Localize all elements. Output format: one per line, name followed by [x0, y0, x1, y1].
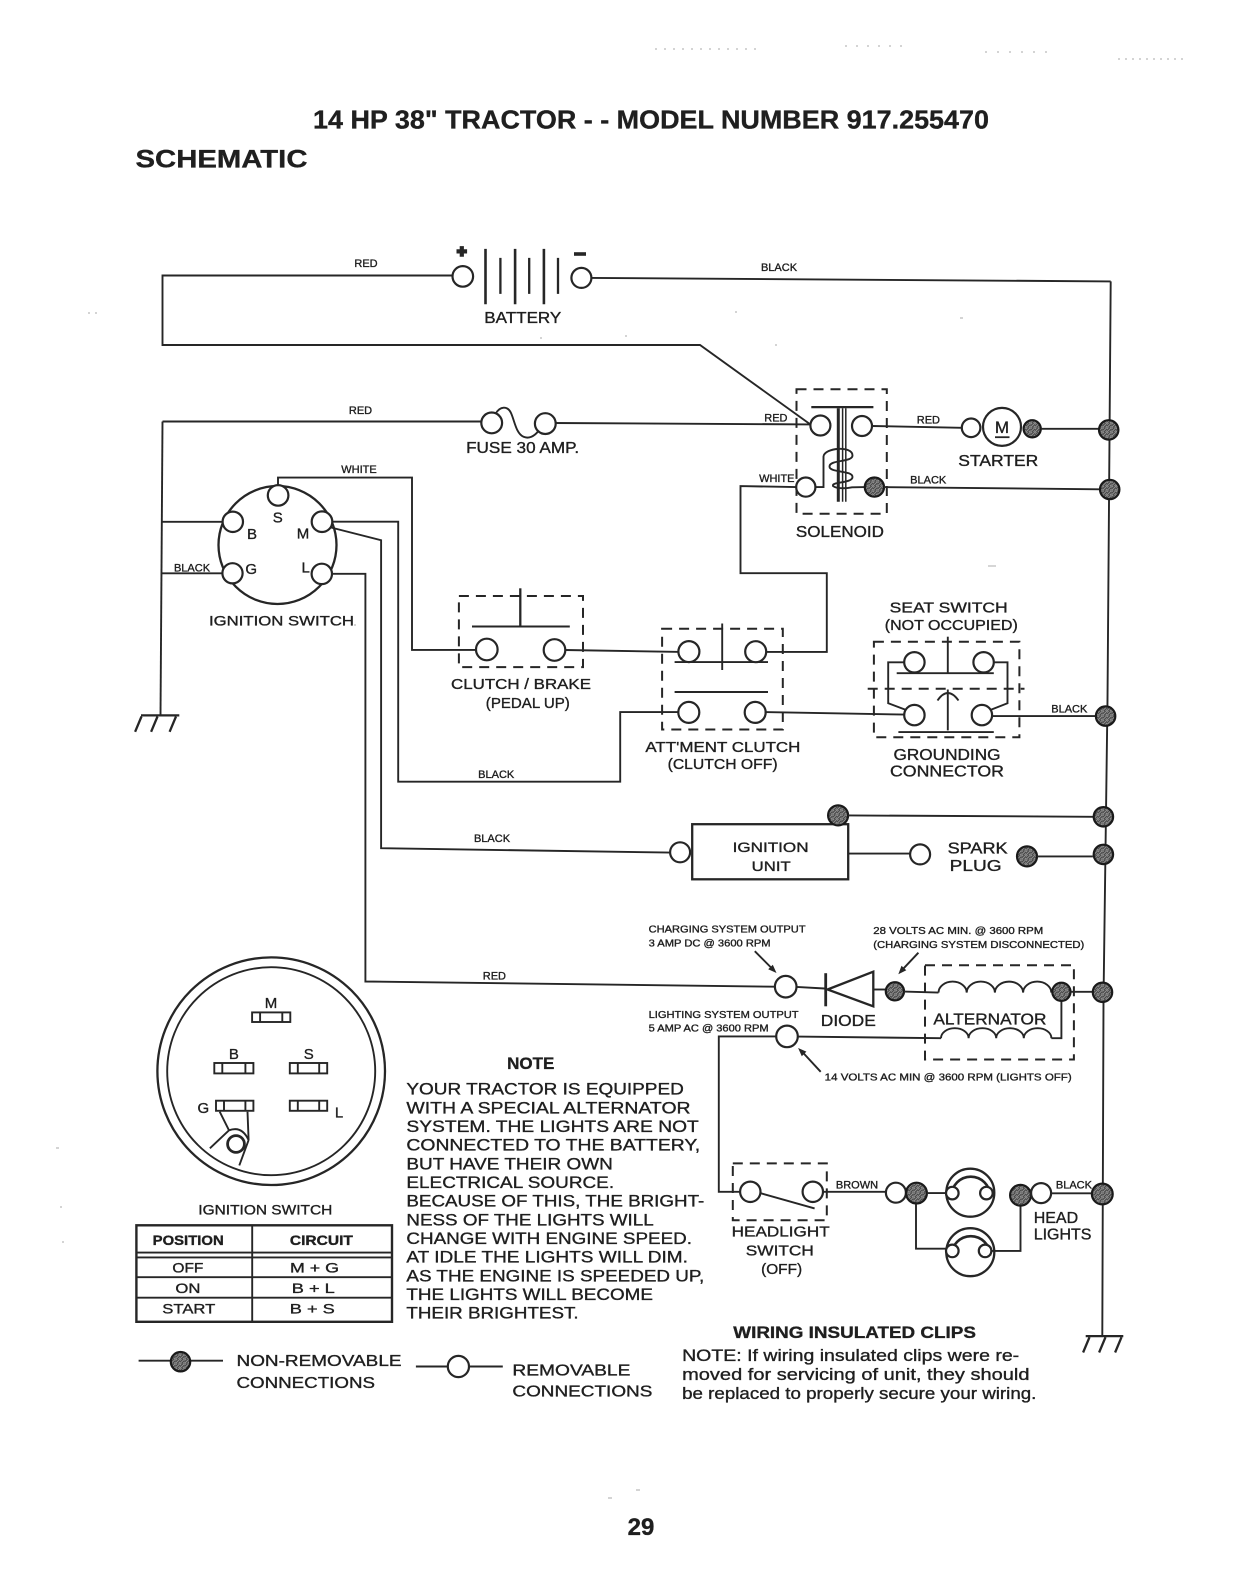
svg-text:SEAT SWITCH: SEAT SWITCH	[890, 600, 1008, 617]
solenoid pin white	[796, 478, 815, 497]
label CHARGING SYSTEM OUTPUT	[649, 924, 807, 949]
wire M pin to ignition unit black	[331, 528, 670, 853]
wire seat to bus black	[991, 715, 1096, 717]
ignition switch pin S	[268, 485, 289, 506]
table ignition switch positions	[136, 1225, 392, 1322]
svg-text:RED: RED	[354, 258, 377, 270]
svg-text:BUT HAVE THEIR OWN: BUT HAVE THEIR OWN	[406, 1154, 612, 1173]
junction dot ignition top bus	[1094, 807, 1113, 826]
attachment clutch stem	[721, 624, 723, 671]
label NON-REMOVABLE CONNECTIONS	[237, 1353, 402, 1392]
label SEAT SWITCH	[890, 600, 1008, 617]
label STARTER	[958, 453, 1038, 470]
clutch brake contact bar	[472, 626, 570, 628]
junction dot alternator bus	[1093, 983, 1112, 1002]
svg-text:CHANGE WITH ENGINE SPEED.: CHANGE WITH ENGINE SPEED.	[406, 1229, 692, 1248]
solenoid box	[797, 389, 887, 514]
terminal L detail	[290, 1101, 343, 1122]
junction dot solenoid black bus	[1100, 480, 1119, 499]
svg-text:NESS OF THE LIGHTS WILL: NESS OF THE LIGHTS WILL	[406, 1210, 653, 1229]
svg-text:CONNECTED TO THE BATTERY,: CONNECTED TO THE BATTERY,	[406, 1136, 700, 1155]
svg-text:B + L: B + L	[292, 1280, 335, 1296]
headlight junction dot left	[906, 1183, 927, 1204]
svg-text:28 VOLTS AC MIN. @ 3600 RPM: 28 VOLTS AC MIN. @ 3600 RPM	[873, 926, 1043, 937]
solenoid coil	[816, 449, 865, 488]
svg-text:G: G	[197, 1100, 209, 1117]
junction dot spark bus	[1094, 845, 1113, 864]
ignition unit box	[692, 824, 848, 879]
page number 29	[628, 1514, 655, 1541]
svg-text:L: L	[335, 1105, 343, 1122]
clutch brake box	[459, 596, 583, 667]
svg-text:14 VOLTS AC MIN @ 3600 RPM (L: 14 VOLTS AC MIN @ 3600 RPM (LIGHTS OFF)	[825, 1072, 1072, 1083]
ignition switch pin B	[223, 512, 243, 532]
label IGNITION SWITCH detail	[198, 1202, 332, 1218]
wire black to ignition G pin	[161, 572, 223, 574]
svg-text:(CLUTCH OFF): (CLUTCH OFF)	[668, 756, 778, 773]
svg-text:G: G	[245, 561, 257, 578]
battery positive terminal	[453, 246, 474, 287]
label (PEDAL UP)	[486, 695, 570, 712]
attachment clutch box	[662, 629, 783, 730]
svg-text:SCHEMATIC: SCHEMATIC	[136, 146, 308, 174]
svg-text:THEIR BRIGHTEST.: THEIR BRIGHTEST.	[406, 1304, 578, 1323]
solenoid pin red left	[810, 416, 830, 436]
label IGNITION SWITCH	[209, 613, 354, 629]
svg-text:BLACK: BLACK	[174, 562, 211, 574]
svg-text:SYSTEM. THE LIGHTS ARE NOT: SYSTEM. THE LIGHTS ARE NOT	[406, 1117, 698, 1136]
spark plug removable connection	[910, 844, 930, 864]
heading WIRING INSULATED CLIPS	[733, 1323, 976, 1342]
label ALTERNATOR	[933, 1012, 1046, 1029]
svg-text:REMOVABLE: REMOVABLE	[512, 1363, 630, 1380]
label FUSE 30 AMP.	[466, 440, 579, 457]
svg-text:14 HP 38" TRACTOR - - MODEL NU: 14 HP 38" TRACTOR - - MODEL NUMBER 917.2…	[313, 105, 989, 135]
terminal G detail	[197, 1100, 253, 1117]
headlight switch box	[733, 1163, 827, 1220]
fuse 30 amp	[481, 408, 555, 438]
svg-text:POSITION: POSITION	[153, 1233, 224, 1248]
svg-text:BLACK: BLACK	[910, 474, 947, 486]
svg-text:CONNECTIONS: CONNECTIONS	[512, 1383, 652, 1400]
label BLACK headlights	[1056, 1180, 1093, 1192]
lighting removable connection	[776, 1026, 798, 1048]
svg-text:THE LIGHTS WILL BECOME: THE LIGHTS WILL BECOME	[406, 1285, 653, 1304]
headlight switch blade	[760, 1193, 814, 1208]
svg-text:CONNECTOR: CONNECTOR	[890, 763, 1004, 780]
label WHITE ignition wire	[341, 464, 376, 476]
svg-text:IGNITION SWITCH: IGNITION SWITCH	[198, 1202, 332, 1218]
wire charging to diode	[797, 987, 825, 989]
wire lighting to headlight switch	[719, 1036, 776, 1191]
label RED solenoid left	[764, 413, 787, 425]
svg-text:(PEDAL UP): (PEDAL UP)	[486, 695, 570, 712]
svg-text:B: B	[229, 1046, 239, 1063]
junction dot lamp bus	[1092, 1184, 1113, 1205]
svg-text:M: M	[265, 995, 278, 1012]
legend non-removable dot	[171, 1352, 190, 1371]
svg-text:S: S	[273, 510, 283, 527]
svg-text:SWITCH: SWITCH	[746, 1242, 814, 1259]
alternator right link	[1051, 1001, 1061, 1038]
svg-text:SOLENOID: SOLENOID	[796, 524, 884, 541]
svg-text:BLACK: BLACK	[1056, 1180, 1093, 1192]
label CONNECTOR	[890, 763, 1004, 780]
label (CLUTCH OFF)	[668, 756, 778, 773]
svg-text:IGNITION: IGNITION	[733, 839, 809, 855]
svg-text:UNIT: UNIT	[752, 858, 792, 874]
main right bus wire	[1102, 281, 1110, 1336]
attachment pin top left	[678, 641, 699, 662]
wire lamp to bus black	[1051, 1192, 1092, 1194]
lamp removable connection right	[1031, 1183, 1051, 1203]
battery BAT plates	[486, 249, 559, 304]
clutch brake actuator stem	[519, 588, 521, 626]
label BLACK solenoid wire	[910, 474, 947, 486]
terminal S detail	[290, 1046, 327, 1073]
seat switch right bracket	[989, 662, 1008, 710]
svg-text:BLACK: BLACK	[474, 833, 511, 845]
wire diode to alternator dot	[873, 989, 886, 991]
alternator bottom coil	[941, 1028, 1051, 1038]
svg-text:IGNITION SWITCH: IGNITION SWITCH	[209, 613, 354, 629]
label ATT'MENT CLUTCH	[645, 739, 800, 756]
table header POSITION CIRCUIT	[153, 1233, 354, 1248]
wire brown headlight	[822, 1191, 886, 1193]
wire dot to top lamp	[927, 1192, 947, 1194]
starter terminal dot	[1024, 420, 1041, 437]
svg-text:(OFF): (OFF)	[761, 1261, 802, 1278]
svg-text:ALTERNATOR: ALTERNATOR	[933, 1012, 1046, 1029]
solenoid plunger core	[838, 408, 846, 502]
svg-text:HEADLIGHT: HEADLIGHT	[732, 1224, 830, 1241]
wire battery red top	[163, 276, 811, 425]
solenoid black terminal dot	[865, 478, 884, 497]
svg-text:ATT'MENT CLUTCH: ATT'MENT CLUTCH	[645, 739, 800, 756]
key position indicator	[210, 1112, 249, 1166]
svg-text:SPARK: SPARK	[948, 840, 1008, 857]
head lamp loop wires	[916, 1204, 1021, 1251]
wire L pin to charging red	[332, 574, 775, 987]
svg-text:RED: RED	[349, 405, 372, 417]
battery negative terminal	[571, 254, 591, 288]
svg-text:AS THE ENGINE IS SPEEDED UP,: AS THE ENGINE IS SPEEDED UP,	[406, 1266, 704, 1285]
wire alternator to bus	[1071, 991, 1094, 993]
attachment clutch bottom bar	[675, 691, 768, 693]
ignition switch pin M	[312, 511, 333, 532]
alternator top coil	[938, 982, 1051, 993]
svg-text:be replaced to properly secure: be replaced to properly secure your wiri…	[682, 1385, 1036, 1403]
svg-text:moved for servicing of unit: moved for servicing of unit, they should	[682, 1366, 1029, 1384]
label LIGHTING SYSTEM OUTPUT	[649, 1010, 800, 1035]
label RED fuse wire	[349, 405, 372, 417]
ignition switch pin G	[222, 563, 242, 583]
seat switch box	[874, 642, 1020, 737]
svg-text:RED: RED	[917, 415, 940, 427]
head lamp top	[946, 1169, 994, 1217]
wire to ignition B pin	[162, 521, 223, 523]
headlight junction dot right	[1010, 1185, 1031, 1206]
note paragraph	[406, 1080, 704, 1323]
svg-text:M: M	[297, 526, 310, 543]
label WHITE solenoid	[759, 473, 794, 485]
ignition switch pin L	[312, 564, 332, 584]
headlight switch pin right	[803, 1182, 823, 1202]
legend removable circle	[448, 1356, 469, 1377]
legend removable wire	[416, 1366, 503, 1368]
svg-text:B + S: B + S	[290, 1301, 335, 1317]
svg-text:RED: RED	[764, 413, 787, 425]
svg-text:START: START	[162, 1301, 216, 1317]
wire white S pin to clutch	[278, 478, 478, 650]
svg-text:GROUNDING: GROUNDING	[894, 747, 1001, 764]
alternator input dot	[886, 982, 904, 1000]
ignition unit input connection	[670, 842, 690, 862]
label RED solenoid right	[917, 415, 940, 427]
wire ignition unit to spark plug	[848, 853, 910, 855]
attachment pin top right	[745, 641, 766, 662]
seat switch top bar	[897, 672, 994, 674]
svg-text:BROWN: BROWN	[836, 1180, 878, 1192]
svg-text:STARTER: STARTER	[958, 453, 1038, 470]
wire lighting to coil	[798, 1037, 941, 1039]
label SOLENOID	[796, 524, 884, 541]
charging removable connection	[775, 976, 797, 998]
spark plug terminal dot	[1017, 846, 1037, 866]
svg-text:LIGHTS: LIGHTS	[1034, 1227, 1092, 1244]
label DIODE	[821, 1013, 876, 1030]
junction dot starter bus	[1099, 420, 1118, 439]
svg-text:M + G: M + G	[290, 1260, 339, 1276]
seat switch stem top	[947, 637, 949, 673]
clutch brake pin left	[476, 639, 498, 661]
diode D1	[826, 972, 874, 1007]
terminal M detail	[252, 995, 290, 1022]
table row START	[162, 1301, 334, 1317]
seat pin bottom right	[972, 705, 992, 725]
label GROUNDING	[894, 747, 1001, 764]
svg-text:HEAD: HEAD	[1034, 1210, 1078, 1227]
headlight switch pin left	[740, 1182, 760, 1202]
attachment pin bottom right	[745, 702, 766, 723]
svg-text:(CHARGING SYSTEM DISCONNECTED): (CHARGING SYSTEM DISCONNECTED)	[873, 940, 1084, 951]
label RED charging wire	[483, 971, 506, 983]
wire fuse red	[163, 422, 811, 425]
svg-text:CONNECTIONS: CONNECTIONS	[237, 1375, 376, 1392]
head lamp bottom	[946, 1228, 994, 1276]
wire solenoid to starter	[872, 426, 962, 428]
svg-text:CHARGING SYSTEM OUTPUT: CHARGING SYSTEM OUTPUT	[649, 924, 807, 935]
svg-text:NOTE: If wiring insulated clip: NOTE: If wiring insulated clips were re-	[682, 1347, 1019, 1365]
svg-text:5 AMP AC @ 3600 RPM: 5 AMP AC @ 3600 RPM	[649, 1024, 769, 1035]
svg-text:BECAUSE OF THIS, THE BRIGHT-: BECAUSE OF THIS, THE BRIGHT-	[406, 1192, 704, 1211]
svg-text:RED: RED	[483, 971, 506, 983]
headlight removable connection	[886, 1183, 906, 1203]
wire M pin to attachment clutch black	[332, 522, 681, 782]
label BLACK ignition unit wire	[474, 833, 511, 845]
solenoid pin red right	[852, 416, 872, 436]
svg-text:29: 29	[628, 1514, 655, 1541]
wire battery black to main bus	[591, 278, 1110, 282]
svg-text:OFF: OFF	[172, 1260, 203, 1276]
label (NOT OCCUPIED)	[885, 617, 1018, 634]
left vertical wire fuse to ground	[161, 422, 163, 716]
attachment clutch top bar	[675, 661, 768, 663]
svg-text:AT IDLE THE LIGHTS WILL DIM.: AT IDLE THE LIGHTS WILL DIM.	[406, 1248, 688, 1267]
pin letters SBMGL	[245, 510, 310, 579]
svg-text:ON: ON	[175, 1280, 200, 1296]
svg-text:PLUG: PLUG	[950, 858, 1002, 875]
svg-text:BLACK: BLACK	[761, 262, 798, 274]
arrow 14 volts	[798, 1048, 821, 1072]
wire attachment to seat switch	[765, 712, 906, 715]
label 28 VOLTS AC MIN	[873, 926, 1084, 951]
ground symbol left	[135, 715, 179, 731]
svg-text:FUSE 30 AMP.: FUSE 30 AMP.	[466, 440, 579, 457]
seat pin top right	[973, 652, 993, 672]
junction dot seat bus	[1096, 706, 1115, 725]
label BATTERY	[484, 310, 561, 327]
label HEAD LIGHTS	[1034, 1210, 1092, 1244]
label BLACK battery wire	[761, 262, 798, 274]
label 14 VOLTS AC MIN	[825, 1072, 1072, 1083]
label CLUTCH / BRAKE	[451, 676, 591, 693]
label BROWN	[836, 1180, 878, 1192]
seat pin bottom left	[904, 705, 924, 725]
wire solenoid black to bus	[884, 487, 1100, 489]
alternator output dot	[1052, 983, 1070, 1001]
ignition switch body	[219, 486, 337, 604]
table row ON	[175, 1280, 335, 1296]
ground symbol right	[1083, 1336, 1123, 1352]
seat switch plunger arc	[938, 690, 959, 731]
svg-text:WITH A SPECIAL ALTERNATOR: WITH A SPECIAL ALTERNATOR	[406, 1098, 690, 1117]
seat switch bottom bar	[898, 731, 993, 733]
attachment pin bottom left	[678, 702, 699, 723]
svg-text:3 AMP DC @ 3600 RPM: 3 AMP DC @ 3600 RPM	[649, 938, 771, 949]
label BLACK ignition ground	[174, 562, 211, 574]
wire starter to bus	[1041, 428, 1099, 430]
svg-text:(NOT OCCUPIED): (NOT OCCUPIED)	[885, 617, 1018, 634]
svg-text:WHITE: WHITE	[759, 473, 794, 485]
svg-text:ELECTRICAL SOURCE.: ELECTRICAL SOURCE.	[406, 1173, 614, 1192]
svg-text:LIGHTING SYSTEM OUTPUT: LIGHTING SYSTEM OUTPUT	[649, 1010, 800, 1021]
ignition unit top terminal dot	[828, 805, 848, 825]
label RED battery wire	[354, 258, 377, 270]
label IGNITION UNIT	[733, 839, 809, 874]
seat pin top left	[904, 652, 924, 672]
starter removable connection	[962, 419, 981, 438]
svg-text:WHITE: WHITE	[341, 464, 376, 476]
svg-text:NOTE: NOTE	[507, 1054, 554, 1073]
arrow 28 volts	[898, 953, 918, 975]
alternator box	[925, 965, 1074, 1059]
ignition switch detail outer circle	[157, 957, 385, 1185]
table row OFF	[172, 1260, 339, 1276]
arrow charging output	[755, 951, 777, 973]
NOTE heading	[507, 1054, 554, 1073]
svg-text:CLUTCH / BRAKE: CLUTCH / BRAKE	[451, 676, 591, 693]
title	[313, 105, 989, 135]
wire white solenoid to attachment	[741, 486, 827, 652]
seat switch left bracket	[888, 662, 907, 710]
svg-text:WIRING INSULATED CLIPS: WIRING INSULATED CLIPS	[733, 1323, 976, 1342]
svg-text:BATTERY: BATTERY	[484, 310, 561, 327]
label HEADLIGHT SWITCH (OFF)	[732, 1224, 830, 1278]
svg-text:S: S	[304, 1046, 314, 1063]
svg-text:CIRCUIT: CIRCUIT	[290, 1233, 354, 1248]
starter motor M	[983, 408, 1021, 446]
svg-text:B: B	[247, 526, 257, 543]
label SPARK PLUG	[948, 840, 1008, 875]
seat switch mid dashed line	[868, 688, 1025, 690]
svg-text:NON-REMOVABLE: NON-REMOVABLE	[237, 1353, 402, 1370]
wire dot to alternator coil	[904, 992, 939, 993]
svg-text:BLACK: BLACK	[478, 769, 515, 781]
svg-text:L: L	[302, 560, 310, 577]
svg-text:YOUR TRACTOR IS EQUIPPED: YOUR TRACTOR IS EQUIPPED	[406, 1080, 683, 1099]
svg-text:BLACK: BLACK	[1051, 703, 1088, 715]
svg-text:DIODE: DIODE	[821, 1013, 876, 1030]
svg-text:M: M	[995, 418, 1009, 437]
wire spark plug to bus	[1037, 855, 1093, 857]
wiring clips note	[682, 1347, 1036, 1403]
label BLACK seat wire	[1051, 703, 1088, 715]
legend non-removable wire	[139, 1360, 223, 1362]
wire ignition unit top to bus	[848, 815, 1094, 816]
wire clutch to attachment	[565, 650, 681, 652]
label REMOVABLE CONNECTIONS	[512, 1363, 652, 1401]
heading SCHEMATIC	[136, 146, 308, 174]
label BLACK attachment wire	[478, 769, 515, 781]
solenoid top bar	[811, 406, 873, 408]
terminal B detail	[214, 1046, 253, 1073]
clutch brake pin right	[544, 639, 566, 661]
